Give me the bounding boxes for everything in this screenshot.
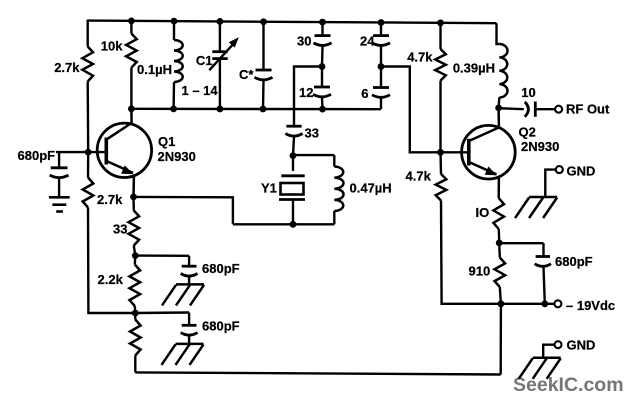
svg-text:10: 10 (521, 85, 535, 100)
svg-text:680pF: 680pF (555, 254, 593, 269)
svg-text:Y1: Y1 (261, 181, 277, 196)
svg-text:6: 6 (361, 86, 368, 101)
svg-text:4.7k: 4.7k (407, 50, 433, 65)
node crystal bottom (290, 221, 297, 228)
resistor R4 33 (113, 197, 139, 256)
node -19V at cap (541, 300, 548, 307)
node R4/R5 junction (132, 252, 139, 259)
resistor R9 IO (476, 198, 505, 243)
svg-text:1 – 14: 1 – 14 (182, 83, 219, 98)
wire R2 bottom down-left column (88, 208, 135, 314)
svg-text:RF Out: RF Out (566, 102, 610, 117)
svg-text:4.7k: 4.7k (406, 169, 432, 184)
capacitor C* (239, 22, 273, 109)
capacitor C1 variable 1-14 (182, 21, 239, 109)
resistor R10 910 (469, 243, 506, 304)
node mid rail C* (260, 106, 267, 113)
inductor L2 0.47µH (334, 155, 391, 224)
ground chassis 3 (515, 197, 557, 218)
wire -19V node to bottom rail (500, 304, 503, 375)
capacitor 10 output (499, 85, 555, 117)
svg-text:0.47µH: 0.47µH (350, 181, 392, 196)
ground chassis 1 (162, 284, 204, 305)
wire R1 bottom to base node (86, 82, 89, 153)
node -19V at R10 (498, 300, 505, 307)
svg-text:IO: IO (476, 205, 490, 220)
svg-text:680pF: 680pF (202, 319, 240, 334)
wire GND top to chassis (545, 170, 555, 197)
capacitor 680pF emitter (499, 243, 592, 304)
terminal GND bottom (555, 338, 596, 353)
node 30/12 junction (319, 63, 326, 70)
resistor R3 10k (101, 21, 137, 68)
capacitor 6 (361, 67, 390, 110)
node Q2 base junction (437, 149, 444, 156)
node emitter junction Q2 (496, 240, 503, 247)
resistor R6 (130, 313, 141, 372)
wire mid rail (collector bus) (131, 108, 381, 111)
node crystal top (290, 152, 297, 159)
resistor R7 4.7k (407, 23, 446, 152)
node mid rail C1 (217, 106, 224, 113)
node top rail C1 (217, 18, 224, 25)
node R5/R6 junction (132, 310, 139, 317)
capacitor 30 (297, 22, 331, 66)
svg-text:C*: C* (239, 67, 254, 82)
wire Q1 base (56, 151, 106, 153)
transistor Q2 2N930 (462, 108, 560, 198)
node top rail 10k (128, 18, 135, 25)
resistor R1 2.7k (54, 47, 93, 82)
wire 10k bottom to mid rail (130, 68, 132, 109)
node top rail C* (260, 18, 267, 25)
svg-text:GND: GND (567, 338, 596, 353)
svg-text:C1: C1 (196, 53, 213, 68)
wire bottom return rail (135, 372, 500, 374)
wire R8 to -19V line (441, 201, 554, 304)
wire left column top (86, 20, 88, 47)
resistor R8 4.7k (406, 152, 447, 200)
node mid rail L1 (170, 106, 177, 113)
wire 24/6 node to Q2 base (381, 67, 469, 153)
svg-text:Q1: Q1 (158, 134, 175, 149)
capacitor 680pF bypass 2 (135, 313, 239, 344)
resistor R2 2.7k (83, 152, 123, 207)
wire 30/12 node to C33 riser (294, 67, 322, 127)
svg-text:2N930: 2N930 (521, 139, 559, 154)
transistor Q1 2N930 (97, 109, 196, 197)
wire emitter to crystal (134, 197, 233, 224)
wire GND bottom to chassis (543, 345, 554, 358)
svg-text:2.7k: 2.7k (54, 60, 80, 75)
ground chassis 2 (162, 344, 204, 365)
node top rail R7 (437, 19, 444, 26)
node top rail C30 (319, 19, 326, 26)
svg-text:0.39µH: 0.39µH (453, 61, 495, 76)
svg-text:GND: GND (567, 164, 596, 179)
node mid rail C12 (319, 106, 326, 113)
svg-text:33: 33 (113, 222, 127, 237)
node Q1 base junction (85, 149, 92, 156)
svg-text:Q2: Q2 (519, 125, 536, 140)
capacitor 12 (299, 67, 331, 110)
terminal GND top (556, 164, 596, 179)
ground earth at base cap (49, 197, 70, 211)
svg-text:33: 33 (305, 126, 319, 141)
svg-text:24: 24 (360, 34, 375, 49)
crystal Y1 2N track (261, 156, 305, 225)
node Q2 collector junction (495, 105, 502, 112)
svg-text:2N930: 2N930 (158, 149, 196, 164)
svg-text:0.1µH: 0.1µH (137, 62, 172, 77)
svg-text:30: 30 (297, 34, 311, 49)
svg-text:2.7k: 2.7k (97, 192, 123, 207)
ground chassis 4 (519, 358, 561, 379)
wire crystal bottom bus (233, 223, 334, 225)
svg-text:680pF: 680pF (202, 261, 240, 276)
svg-text:10k: 10k (101, 39, 123, 54)
capacitor 680pF base (18, 148, 69, 197)
capacitor 24 (360, 22, 390, 66)
watermark SeekIC.com (513, 374, 624, 397)
inductor L3 0.39µH (453, 23, 508, 108)
svg-text:910: 910 (469, 264, 491, 279)
capacitor 33 (285, 126, 319, 156)
node mid rail collector (128, 105, 135, 112)
svg-text:2.2k: 2.2k (98, 272, 124, 287)
resistor R5 2.2k (98, 256, 141, 313)
wire crystal top to L2 (293, 154, 334, 156)
svg-text:680pF: 680pF (18, 148, 56, 163)
node 24/6 junction (378, 63, 385, 70)
node top rail L1 (171, 18, 178, 25)
capacitor 680pF bypass 1 (135, 256, 239, 285)
node top rail C24 (378, 19, 385, 26)
inductor L1 0.1µH (137, 21, 183, 109)
svg-text:– 19Vdc: – 19Vdc (566, 298, 615, 313)
node Q1 emitter junction (130, 194, 137, 201)
terminal -19Vdc (554, 298, 615, 313)
svg-text:12: 12 (299, 85, 313, 100)
wire top supply rail (88, 21, 497, 24)
terminal RF Out (555, 102, 610, 117)
